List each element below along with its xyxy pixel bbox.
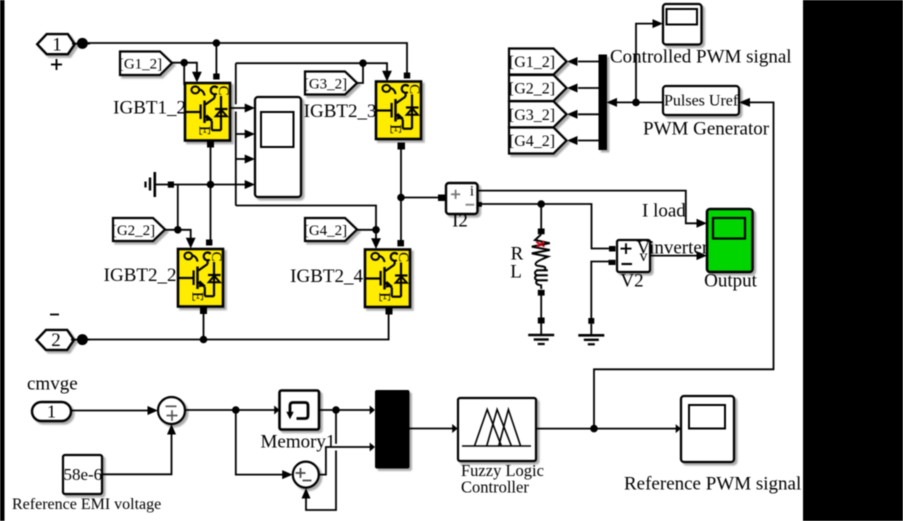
node on [G1_2] wire (180, 59, 188, 67)
wire: - DC rail (87, 314, 389, 340)
IGBT2_3 block (376, 82, 422, 140)
svg-text:IGBT2_2: IGBT2_2 (104, 265, 177, 286)
wire stub from node down along block edge (183, 63, 185, 85)
node fuzzy output branch (feedback) (590, 425, 598, 433)
scope block (4-input, centre) (255, 97, 301, 197)
node sum1 branch (232, 406, 240, 414)
svg-text:i: i (470, 184, 474, 200)
Memory1 icon (290, 403, 308, 419)
voltage measurement V2 (617, 240, 650, 272)
wire sum1 output to Memory1 (185, 409, 275, 411)
svg-text:IGBT2_3: IGBT2_3 (304, 101, 377, 122)
I2 plus sign (451, 190, 460, 199)
right black region (803, 0, 903, 521)
svg-text:IGBT1_2: IGBT1_2 (113, 98, 186, 119)
wire: + rail drop to IGBT1_2 collector (215, 43, 217, 74)
sum1 minus sign (166, 405, 177, 407)
sum1 plus sign (167, 410, 178, 421)
svg-text:Reference EMI voltage: Reference EMI voltage (12, 496, 161, 513)
V2 minus port square (609, 260, 616, 265)
demux bar (599, 55, 608, 151)
mux bar (black) (375, 390, 410, 469)
IGBT1_2 collector port square (213, 74, 219, 80)
svg-text:1: 1 (52, 35, 62, 56)
wire: bus branch to scope input 3 (236, 158, 251, 160)
Reference PWM signal scope (681, 396, 734, 462)
IGBT2_4 collector port square (397, 240, 404, 246)
wire demux out 2 to [G2_2] (578, 87, 599, 89)
wire sum1 branch down to sum2 input (236, 410, 287, 475)
Memory1 block (280, 391, 320, 430)
I2 minus port square (477, 202, 482, 207)
V2 plus sign (621, 243, 632, 254)
node scope tap on pulses wire (632, 99, 640, 107)
I2 input port square (438, 195, 445, 202)
V2 minus sign (622, 263, 633, 265)
svg-text:[G1_2]: [G1_2] (509, 54, 555, 71)
arrow into IGBT2_4 gate (371, 238, 381, 249)
central vertical bus wire (with crossover gaps at scope in1 wire) (235, 63, 237, 104)
ground (left, rotated) (146, 172, 169, 197)
ground under RL (528, 324, 554, 345)
wire: mid rail from ground to scope input 4 (174, 184, 251, 186)
IGBT2_2 emitter port square (200, 308, 207, 315)
node mid-rail x IGBT column (207, 181, 215, 189)
Reference scope screen (689, 405, 725, 429)
svg-text:Reference PWM signal: Reference PWM signal (624, 474, 801, 495)
I2 minus sign (466, 204, 475, 206)
svg-text:Pulses Uref: Pulses Uref (664, 92, 739, 109)
svg-text:Controller: Controller (461, 478, 529, 497)
svg-text:I2: I2 (452, 211, 468, 232)
IGBT1_2 emitter port square (207, 141, 214, 148)
wire: pulses output to demux (617, 101, 663, 103)
node I2 tap (397, 194, 405, 202)
wire demux out 1 to [G1_2] (578, 61, 599, 63)
wire down to RL branch (540, 204, 542, 229)
IGBT2_3 emitter port square (398, 143, 406, 150)
svg-text:I load: I load (642, 201, 686, 222)
wire [G3_2] up to gate bus (357, 63, 363, 83)
IGBT2_2 collector port square (206, 240, 212, 246)
wire [G4_2] to node (357, 229, 376, 231)
wire: IGBT1_2 measurement output to scope input 1 (229, 107, 251, 109)
Goto tag [G2_2] (509, 75, 567, 101)
resistor R (zigzag) (532, 234, 550, 259)
svg-text:[G4_2]: [G4_2] (509, 133, 555, 150)
scope screen (261, 112, 294, 147)
arrow into IGBT2_2 gate (186, 238, 196, 249)
sum2 plus sign (296, 468, 306, 478)
ground port square (168, 182, 174, 188)
wire Memory1 output to mux input 1 (319, 409, 371, 411)
wire cmvge to sum1 (71, 410, 149, 412)
From tag [G1_2] (120, 52, 172, 76)
sum block 2 (293, 462, 319, 488)
output port 2 (- DC terminal) (37, 330, 75, 350)
Fuzzy Logic Controller block (458, 398, 536, 461)
input port 1 (+ DC terminal) (37, 34, 74, 54)
wire IGBT2_2 emitter to - rail (203, 314, 205, 340)
wire: + DC rail (87, 43, 407, 73)
svg-text:2: 2 (51, 330, 61, 351)
svg-text:58e-6: 58e-6 (63, 465, 102, 484)
wire mux output to Fuzzy Logic Controller (410, 428, 454, 430)
wire: bus y=205.5 to IGBT2_4 gate (236, 206, 376, 240)
node memory branch (332, 406, 340, 414)
wire: rail branch down to [G2_2] node (177, 185, 179, 230)
RL branch top port square (538, 229, 545, 235)
From tag [G2_2] (113, 218, 165, 241)
left black border bar (0, 0, 5, 521)
wire IGBT1_2 emitter down to IGBT2_2 collector (210, 147, 212, 240)
inductor L (coil) (535, 260, 545, 290)
wire: V2 output to Output scope input 2 (650, 255, 702, 257)
wire: node to I2 input (401, 197, 439, 199)
wire: V2 minus to ground (591, 262, 610, 319)
wire fuzzy output to Reference PWM signal scope (536, 428, 676, 430)
sum2 minus sign (303, 480, 312, 482)
arrow into IGBT1_2 gate (192, 72, 202, 83)
RL branch bottom port square (538, 290, 545, 296)
node on gate bus y63 (359, 59, 367, 67)
Controlled PWM signal scope (663, 4, 702, 45)
wire: bus branch to scope input 2 (236, 133, 251, 135)
Output scope (green) (707, 209, 753, 272)
Goto tag [G1_2] (right column) (509, 49, 567, 75)
wire demux out 3 to [G3_2] (578, 113, 599, 115)
svg-text:[G4_2]: [G4_2] (304, 223, 347, 239)
wire 58e-6 to sum1 bottom (102, 431, 172, 474)
V2 ground port square (588, 318, 594, 324)
svg-text:IGBT2_4: IGBT2_4 (290, 266, 363, 287)
minus sign above port 2 (50, 314, 59, 316)
V2 plus port square (609, 246, 616, 252)
constant 58e-6 (63, 455, 102, 494)
wire: I2 out 1 to Output scope input 1 (I load wire) (478, 191, 702, 224)
svg-text:L: L (510, 262, 522, 283)
wire: tap up to Controlled PWM signal scope (636, 24, 658, 103)
svg-text:Controlled PWM signal: Controlled PWM signal (610, 47, 792, 68)
node: big junction dot after port 2 (77, 334, 88, 345)
svg-text:Memory1: Memory1 (261, 432, 336, 453)
ground under V2 (578, 324, 604, 345)
svg-text:PWM Generator: PWM Generator (643, 119, 770, 140)
input port 1 (cmvge, stadium) (32, 402, 71, 421)
node RL tap (537, 200, 545, 208)
wire: feedback from fuzzy output up to Uref input (594, 102, 774, 428)
current measurement I2 (446, 183, 478, 214)
IGBT2_4 emitter port square (386, 308, 393, 315)
svg-text:[G3_2]: [G3_2] (304, 76, 347, 92)
svg-text:cmvge: cmvge (27, 374, 78, 395)
wire port1 to junction (72, 43, 90, 45)
arrow into IGBT2_3 gate (382, 71, 392, 82)
Goto tag [G3_2] (509, 101, 567, 127)
IGBT2_4 block (365, 250, 411, 308)
wire: gate bus y=63 to IGBT2_3 gate (236, 63, 387, 72)
Output scope screen (713, 218, 745, 239)
plus sign under port 1 (51, 59, 62, 70)
RL ground port square (538, 318, 545, 324)
From tag [G3_2] (305, 72, 357, 95)
node: big junction dot after port 1 (77, 38, 88, 49)
wire RL bottom to ground (540, 296, 542, 319)
red fault mark on resistor (536, 242, 544, 248)
From tag [G4_2] (305, 218, 357, 241)
wire: I2 minus terminal to V2 plus (478, 204, 610, 249)
IGBT1_2 block (185, 83, 231, 141)
svg-text:[G2_2]: [G2_2] (112, 223, 155, 239)
wire IGBT2_3 emitter down to IGBT2_4 collector (400, 149, 402, 240)
wire demux out 4 to [G4_2] (578, 140, 599, 142)
wire memory branch down to sum2 feedback (with crossover gaps) (335, 410, 337, 444)
svg-text:1: 1 (47, 401, 56, 421)
wire [G1_2] to gate of IGBT1_2 (172, 63, 197, 73)
svg-text:V2: V2 (620, 271, 643, 292)
node - rail (200, 336, 208, 344)
wire sum2 output to mux input 2 (319, 447, 371, 475)
wire [G2_2] to IGBT2_2 gate (165, 230, 191, 239)
svg-text:Output: Output (704, 271, 758, 292)
node [G2_2] junction (174, 226, 182, 234)
fuzzy membership functions icon (462, 410, 531, 447)
node on + rail above IGBT1_2 (213, 39, 221, 47)
IGBT2_3 collector port square (404, 73, 410, 79)
PWM Generator block (Pulses Uref) (663, 86, 739, 115)
Controlled scope screen (667, 9, 698, 25)
svg-text:[G2_2]: [G2_2] (509, 81, 555, 98)
svg-text:[G1_2]: [G1_2] (119, 56, 162, 72)
svg-text:[G3_2]: [G3_2] (509, 107, 555, 124)
node [G4_2] junction (372, 226, 380, 234)
wire port2 stub (71, 339, 90, 341)
sum block 1 (158, 397, 185, 424)
IGBT2_2 block (178, 249, 224, 307)
Goto tag [G4_2] (509, 128, 567, 154)
